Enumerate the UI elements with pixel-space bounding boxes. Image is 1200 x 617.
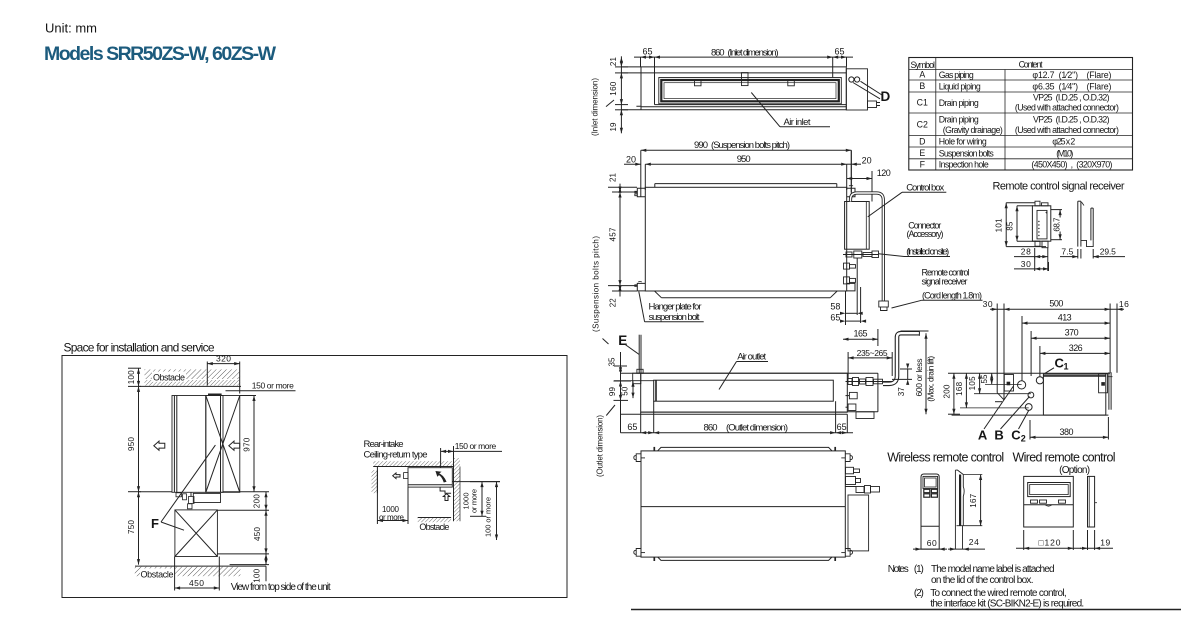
receiver front body bbox=[1032, 206, 1050, 241]
dim 750 left bbox=[128, 491, 141, 493]
ceiling hatch band bbox=[373, 461, 453, 466]
connector chain plan bbox=[843, 254, 879, 256]
svg-text:22: 22 bbox=[608, 298, 617, 308]
control box top view bbox=[846, 69, 867, 110]
svg-text:65: 65 bbox=[627, 422, 637, 432]
suspension bolt front bbox=[638, 335, 640, 374]
svg-text:100: 100 bbox=[252, 568, 261, 583]
right dim chain 200 450 100 bbox=[223, 491, 269, 493]
inspection hole square with X bbox=[175, 510, 218, 557]
svg-text:950: 950 bbox=[737, 154, 751, 165]
dim 950 plan bbox=[644, 164, 646, 190]
svg-text:29.5: 29.5 bbox=[1100, 247, 1116, 257]
drain pipe riser bbox=[883, 333, 919, 384]
svg-text:(Outlet dimension): (Outlet dimension) bbox=[596, 415, 605, 477]
wiring holes D bbox=[849, 77, 854, 82]
hanger bracket front left bbox=[633, 373, 641, 384]
side dim 380 bbox=[1029, 420, 1031, 440]
receiver side view bbox=[1077, 201, 1079, 246]
side view bottom line bbox=[952, 414, 1109, 416]
svg-text:(Inlet dimension): (Inlet dimension) bbox=[591, 78, 600, 136]
svg-text:970: 970 bbox=[243, 437, 252, 452]
svg-text:450: 450 bbox=[189, 578, 204, 588]
svg-text:370: 370 bbox=[1065, 328, 1079, 338]
svg-text:860: 860 bbox=[704, 423, 718, 434]
receiver dim 28 bbox=[1034, 248, 1036, 259]
svg-text:1: 1 bbox=[1064, 362, 1069, 372]
svg-text:20: 20 bbox=[862, 156, 872, 166]
wired remote front bbox=[1024, 476, 1074, 527]
svg-text:Air outlet: Air outlet bbox=[737, 351, 766, 362]
svg-text:Hole for wiring: Hole for wiring bbox=[939, 137, 987, 147]
svg-text:105: 105 bbox=[968, 376, 977, 391]
svg-text:167: 167 bbox=[969, 493, 978, 508]
svg-text:F: F bbox=[920, 159, 926, 169]
wired dim 19 bbox=[1087, 530, 1089, 550]
svg-text:150 or more: 150 or more bbox=[455, 441, 497, 451]
svg-text:65: 65 bbox=[835, 47, 845, 57]
plan view unit outline bbox=[645, 187, 846, 291]
svg-text:Air inlet: Air inlet bbox=[784, 117, 811, 128]
svg-text:(Accessory): (Accessory) bbox=[907, 229, 944, 239]
svg-text:200: 200 bbox=[942, 384, 951, 399]
obstacle hatch top bbox=[145, 369, 241, 379]
svg-text:(Outlet dimension): (Outlet dimension) bbox=[726, 423, 788, 434]
svg-text:200: 200 bbox=[253, 494, 262, 509]
svg-text:(M10): (M10) bbox=[1056, 148, 1073, 158]
refrigerant pipes front bbox=[846, 381, 893, 383]
svg-text:380: 380 bbox=[1060, 427, 1074, 437]
svg-text:160: 160 bbox=[609, 81, 618, 96]
dim 120 control box bbox=[871, 171, 873, 202]
svg-text:320: 320 bbox=[216, 354, 231, 364]
svg-text:85: 85 bbox=[1005, 221, 1014, 231]
intake curved arrow dark bbox=[436, 472, 446, 483]
bottom view control box bbox=[848, 495, 869, 551]
flare fittings below control box bbox=[844, 263, 850, 269]
svg-text:Obstacle: Obstacle bbox=[419, 522, 449, 532]
svg-text:28: 28 bbox=[1021, 247, 1031, 257]
obstacle hatch bottom bbox=[135, 565, 266, 567]
svg-text:101: 101 bbox=[995, 218, 1004, 233]
svg-text:600 or less: 600 or less bbox=[914, 359, 924, 397]
wired remote buttons bbox=[1031, 500, 1038, 503]
svg-text:C1: C1 bbox=[917, 98, 928, 108]
left wall hatch strip bbox=[376, 470, 378, 493]
svg-text:120: 120 bbox=[877, 168, 891, 178]
side view top reference line bbox=[948, 372, 1110, 374]
svg-text:Obstacle: Obstacle bbox=[141, 569, 174, 579]
wireless remote buttons bbox=[924, 489, 930, 492]
svg-text:165: 165 bbox=[854, 329, 868, 339]
wireless dim 24 bbox=[948, 548, 985, 550]
dim 65/860/65 outlet bbox=[653, 401, 655, 433]
control box plan bbox=[845, 202, 870, 250]
svg-text:Ceiling-return type: Ceiling-return type bbox=[364, 450, 428, 461]
air inlet opening frame bbox=[659, 78, 842, 104]
bottom view body bbox=[641, 451, 845, 557]
front left dims 35/99/50 bbox=[620, 352, 622, 433]
ceiling line under hatch bbox=[139, 385, 242, 387]
dim 990 suspension bolts pitch bbox=[640, 150, 642, 197]
rear-intake flow arrow bbox=[393, 473, 400, 479]
wireless dim 167 bbox=[963, 474, 982, 476]
receiver dots bbox=[1038, 221, 1039, 222]
side dim 326 bbox=[1039, 346, 1041, 377]
front view outline bbox=[621, 372, 848, 374]
svg-text:21: 21 bbox=[609, 57, 618, 67]
svg-text:37: 37 bbox=[897, 387, 906, 397]
svg-text:D: D bbox=[881, 89, 891, 104]
svg-text:(Used with attached connector): (Used with attached connector) bbox=[1015, 125, 1119, 135]
svg-text:100 or more: 100 or more bbox=[484, 497, 493, 537]
inspection panel with X cross bbox=[206, 396, 240, 493]
side dim 413 bbox=[1021, 316, 1023, 381]
svg-text:B: B bbox=[994, 428, 1003, 443]
svg-text:235~265: 235~265 bbox=[857, 348, 888, 358]
line under unit to right dims bbox=[452, 481, 500, 483]
svg-text:(Suspension bolts pitch): (Suspension bolts pitch) bbox=[711, 140, 790, 151]
svg-text:50: 50 bbox=[621, 386, 630, 396]
svg-text:860: 860 bbox=[711, 48, 725, 59]
svg-text:signal receiver: signal receiver bbox=[922, 276, 968, 286]
plan bottom trapezoid bbox=[661, 297, 830, 299]
svg-text:990: 990 bbox=[694, 140, 708, 151]
svg-text:Space for installation and ser: Space for installation and service bbox=[64, 341, 215, 355]
svg-text:(Installed on site): (Installed on site) bbox=[906, 247, 949, 258]
svg-text:A: A bbox=[978, 428, 988, 443]
svg-text:99: 99 bbox=[608, 387, 617, 397]
installation box frame bbox=[62, 356, 567, 598]
obstacle hatch rear bottom bbox=[418, 517, 451, 519]
svg-text:19: 19 bbox=[609, 122, 618, 132]
wireless remote front bbox=[921, 474, 939, 549]
svg-text:500: 500 bbox=[1049, 299, 1063, 309]
svg-text:950: 950 bbox=[127, 436, 136, 451]
svg-text:View from top side of the unit: View from top side of the unit bbox=[231, 582, 331, 593]
svg-text:VP25 (I.D.25 , O.D.32): VP25 (I.D.25 , O.D.32) bbox=[1033, 92, 1110, 102]
svg-text:(2): (2) bbox=[914, 588, 924, 599]
side dim 370 bbox=[1030, 331, 1032, 376]
wireless remote side bbox=[954, 470, 956, 549]
svg-text:To connect the wired remote co: To connect the wired remote control, bbox=[930, 588, 1066, 599]
symbol table frame bbox=[909, 58, 1133, 171]
side left dims 200 168 105 55 bbox=[948, 413, 960, 415]
unit outline top-view bbox=[172, 396, 223, 493]
svg-text:20: 20 bbox=[626, 154, 636, 164]
svg-text:55: 55 bbox=[980, 374, 989, 384]
bottom view corner brackets bbox=[636, 454, 641, 462]
svg-text:or more: or more bbox=[470, 489, 479, 513]
pipe circles ABC bbox=[1018, 381, 1026, 389]
svg-text:□120: □120 bbox=[1039, 538, 1061, 548]
flow arrow left bbox=[154, 441, 165, 450]
air outlet opening bbox=[654, 380, 834, 401]
left dim 21/457/22 plan bbox=[619, 184, 621, 297]
side view left profile bbox=[1003, 373, 1005, 400]
hanger plate bottom-right bbox=[847, 283, 855, 291]
wired remote side bbox=[1088, 476, 1095, 527]
svg-text:Wired remote control: Wired remote control bbox=[1013, 451, 1116, 465]
svg-text:168: 168 bbox=[955, 381, 964, 396]
svg-text:(Used with attached connector): (Used with attached connector) bbox=[1015, 103, 1119, 113]
svg-text:VP25 (I.D.25 , O.D.32): VP25 (I.D.25 , O.D.32) bbox=[1033, 115, 1110, 125]
svg-text:30: 30 bbox=[1021, 259, 1031, 269]
hanger plate bottom-left bbox=[637, 283, 645, 291]
bracket below unit bbox=[440, 487, 451, 493]
svg-text:(Inlet dimension): (Inlet dimension) bbox=[728, 48, 779, 59]
svg-text:Inspection hole: Inspection hole bbox=[939, 160, 989, 170]
dim 20 right bbox=[847, 163, 861, 165]
svg-text:58: 58 bbox=[830, 302, 840, 312]
svg-text:68.7: 68.7 bbox=[1053, 217, 1062, 232]
svg-text:Wireless remote control: Wireless remote control bbox=[887, 451, 1004, 465]
svg-text:F: F bbox=[151, 516, 159, 531]
receiver dim 101 bbox=[1006, 202, 1035, 204]
wall hatch right bbox=[453, 458, 455, 521]
dim 450 bottom bbox=[174, 557, 176, 591]
svg-text:A: A bbox=[919, 70, 925, 80]
receiver dim 29.5 bbox=[1092, 249, 1094, 259]
svg-text:7.5: 7.5 bbox=[1061, 247, 1073, 257]
svg-text:Suspension bolts: Suspension bolts bbox=[939, 148, 995, 158]
svg-text:B: B bbox=[919, 81, 925, 91]
svg-text:E: E bbox=[919, 148, 925, 158]
svg-text:(Gravity drainage): (Gravity drainage) bbox=[943, 125, 1003, 135]
svg-text:Models SRR50ZS-W, 60ZS-W: Models SRR50ZS-W, 60ZS-W bbox=[44, 43, 277, 65]
svg-text:2: 2 bbox=[1021, 434, 1026, 444]
svg-text:65: 65 bbox=[830, 313, 840, 323]
svg-text:150 or more: 150 or more bbox=[252, 381, 294, 391]
up arrow below unit bbox=[443, 494, 450, 501]
svg-text:Drain piping: Drain piping bbox=[939, 115, 979, 125]
svg-text:24: 24 bbox=[969, 537, 979, 547]
dim line 65/860/65 inlet bbox=[640, 57, 642, 67]
svg-text:φ6.35 (1⁄4") (Flare): φ6.35 (1⁄4") (Flare) bbox=[1032, 81, 1111, 91]
svg-text:457: 457 bbox=[608, 227, 617, 242]
svg-text:(Max. drain lift): (Max. drain lift) bbox=[925, 356, 935, 402]
svg-text:Obstacle: Obstacle bbox=[153, 372, 185, 382]
svg-text:D: D bbox=[919, 136, 925, 146]
bottom rule bbox=[631, 609, 1181, 611]
flow arrow right bbox=[229, 441, 240, 450]
svg-text:65: 65 bbox=[837, 422, 847, 432]
receiver dim 7.5 bbox=[1077, 249, 1079, 259]
svg-text:(Option): (Option) bbox=[1059, 465, 1090, 476]
receiver bottom tabs bbox=[1035, 241, 1040, 246]
dim 970 right bbox=[240, 395, 256, 397]
svg-text:35: 35 bbox=[607, 357, 616, 367]
side view right bracket bbox=[1099, 374, 1108, 393]
plan top lip line bbox=[655, 183, 837, 185]
svg-text:Liquid piping: Liquid piping bbox=[939, 81, 981, 91]
svg-text:413: 413 bbox=[1058, 313, 1072, 323]
svg-text:Symbol: Symbol bbox=[911, 60, 936, 70]
dim 20 left bbox=[624, 163, 641, 165]
svg-text:60: 60 bbox=[927, 538, 937, 548]
left dim line inlet view 21/160/19 bbox=[620, 56, 622, 133]
svg-text:21: 21 bbox=[608, 172, 617, 182]
svg-text:Notes: Notes bbox=[888, 564, 909, 575]
svg-text:19: 19 bbox=[1100, 538, 1110, 548]
bottom view pipes bbox=[846, 467, 854, 474]
receiver dim 85 bbox=[1017, 205, 1033, 207]
svg-text:Gas piping: Gas piping bbox=[939, 70, 974, 80]
dim 100 or more right vertical bbox=[496, 482, 498, 540]
hanger plate top-right bbox=[847, 188, 855, 197]
connector stub top view bbox=[868, 101, 877, 108]
conduit wire to receiver bbox=[851, 193, 884, 301]
svg-text:Rear-intake: Rear-intake bbox=[364, 439, 404, 450]
svg-text:Content: Content bbox=[1019, 60, 1044, 70]
svg-text:(Cord length 1.8m): (Cord length 1.8m) bbox=[922, 291, 982, 301]
svg-text:16: 16 bbox=[1119, 299, 1129, 309]
svg-text:750: 750 bbox=[127, 519, 136, 534]
hanger plate top-left bbox=[637, 188, 645, 197]
svg-text:Unit: mm: Unit: mm bbox=[45, 21, 97, 36]
svg-text:100: 100 bbox=[127, 370, 136, 385]
bottom view flange bottom bbox=[658, 557, 832, 560]
top view unit outline bbox=[621, 66, 846, 68]
receiver dim 68.7 bbox=[1051, 209, 1062, 211]
wireless dim 60 bbox=[913, 548, 947, 550]
svg-text:326: 326 bbox=[1069, 343, 1083, 353]
dim 1000 or more right vertical bbox=[470, 481, 500, 483]
side view body bbox=[1043, 374, 1105, 415]
rear-intake unit rect bbox=[408, 468, 452, 487]
svg-text:on the lid of the control box.: on the lid of the control box. bbox=[931, 575, 1034, 586]
svg-text:(Suspension bolts pitch): (Suspension bolts pitch) bbox=[592, 236, 601, 332]
svg-text:φ25 x 2: φ25 x 2 bbox=[1052, 137, 1075, 147]
svg-text:Remote control signal receiver: Remote control signal receiver bbox=[993, 181, 1125, 193]
C2 fittings front bbox=[849, 392, 857, 398]
svg-text:Hanger plate for: Hanger plate for bbox=[649, 301, 702, 312]
dim 100 left of obstacle bbox=[128, 367, 141, 369]
remote receiver on cord bbox=[879, 301, 889, 307]
control box front view bbox=[847, 372, 878, 374]
dim 600 or less max drain lift bbox=[901, 330, 929, 332]
foot notch left bbox=[636, 106, 641, 110]
svg-text:(450X450) , (320X970): (450X450) , (320X970) bbox=[1031, 160, 1112, 170]
dim 165 bbox=[877, 329, 879, 346]
svg-text:Drain piping: Drain piping bbox=[939, 98, 979, 108]
dim 950 left bbox=[138, 386, 140, 491]
svg-text:(1): (1) bbox=[914, 564, 924, 575]
drain fittings below unit bbox=[176, 493, 182, 497]
dim 235~265 bbox=[847, 352, 849, 378]
bottom view flange top bbox=[658, 447, 832, 450]
svg-text:65: 65 bbox=[643, 47, 653, 57]
wired dim 120 bbox=[1016, 547, 1081, 549]
dim 37 bbox=[900, 368, 912, 370]
receiver dim 30 bbox=[1048, 262, 1050, 271]
svg-text:C2: C2 bbox=[917, 120, 928, 130]
inlet clips bbox=[695, 80, 702, 86]
svg-text:450: 450 bbox=[253, 526, 262, 541]
dim 320 top bbox=[206, 362, 208, 386]
svg-text:φ12.7 (1⁄2") (Flare): φ12.7 (1⁄2") (Flare) bbox=[1032, 70, 1111, 80]
side dim 30/500/16 bbox=[996, 304, 998, 393]
svg-text:The model name label is attach: The model name label is attached bbox=[931, 564, 1055, 575]
svg-text:30: 30 bbox=[983, 299, 993, 309]
svg-text:the interface kit (SC-BIKN2-E): the interface kit (SC-BIKN2-E) is requir… bbox=[930, 599, 1084, 610]
